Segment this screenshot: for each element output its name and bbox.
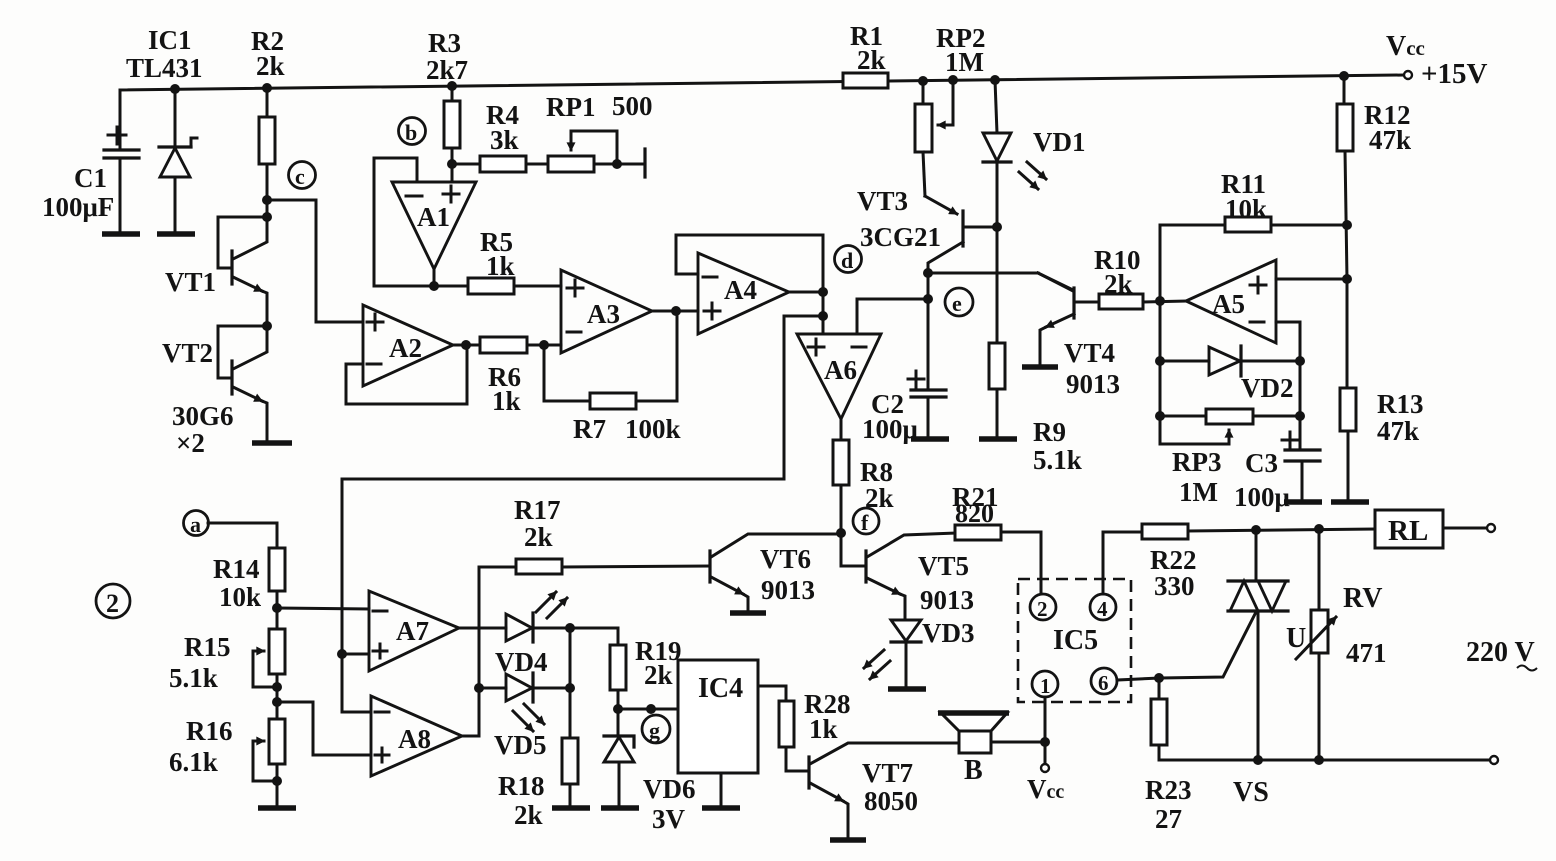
svg-text:2k: 2k: [857, 45, 886, 75]
svg-text:5.1k: 5.1k: [1033, 445, 1082, 475]
wire tap to A8 input: [277, 702, 371, 755]
terminal mains bottom: [1490, 756, 1498, 764]
ground under R16: [258, 805, 296, 811]
svg-text:5.1k: 5.1k: [169, 663, 218, 693]
junction VD4 cathode: [565, 623, 575, 633]
op-amp A3: [561, 270, 652, 353]
junction R3/R4/A1: [447, 159, 457, 169]
junction RV top: [1314, 524, 1324, 534]
svg-text:R16: R16: [186, 716, 233, 746]
svg-text:47k: 47k: [1369, 125, 1411, 155]
svg-text:a: a: [190, 512, 201, 537]
diode VD4: [506, 613, 570, 642]
junction VT1/VT2: [262, 321, 272, 331]
resistor R6: [480, 337, 561, 353]
svg-text:VD5: VD5: [494, 730, 547, 760]
svg-text:VT6: VT6: [760, 544, 811, 574]
resistor R1: [843, 73, 888, 88]
svg-text:3V: 3V: [652, 804, 686, 834]
resistor R10: [1074, 294, 1186, 309]
wire A5 noninverting input: [1276, 278, 1347, 281]
capacitor C1: [104, 90, 139, 232]
wire IC4 output: [758, 686, 786, 701]
transistor VT2: [218, 326, 267, 441]
junction VT3 base / VD1: [992, 222, 1002, 232]
junction R19/VD6: [613, 704, 623, 714]
wire A3 output: [652, 310, 698, 313]
wire bottom mains rail: [1159, 759, 1489, 762]
resistor R9: [989, 343, 1005, 437]
svg-text:b: b: [405, 120, 417, 145]
junction R15/R16 tap: [272, 697, 282, 707]
svg-text:4: 4: [1097, 597, 1108, 621]
wire R14 node to A7 input: [277, 608, 369, 609]
resistor R13: [1340, 279, 1356, 500]
wire R19 node to IC4: [618, 708, 678, 711]
svg-text:A2: A2: [389, 333, 422, 363]
terminal bar after RP1: [643, 149, 646, 177]
svg-text:e: e: [952, 291, 962, 316]
op-amp A6: [797, 334, 881, 419]
resistor R5: [434, 278, 561, 294]
junction rail/IC1: [170, 84, 180, 94]
junction speaker/Vcc pin1: [1040, 737, 1050, 747]
svg-text:500: 500: [612, 91, 653, 121]
wire output bus R17/VD5: [478, 567, 481, 736]
svg-text:VT1: VT1: [165, 267, 216, 297]
pin 4 IC5: [1090, 594, 1116, 621]
svg-text:R3: R3: [428, 28, 461, 58]
ground under C1: [102, 231, 140, 237]
svg-text:d: d: [841, 248, 853, 273]
ground under R9: [979, 436, 1017, 442]
svg-text:A4: A4: [724, 275, 757, 305]
arrows VD4 emission: [536, 592, 567, 618]
wire A1 output: [433, 269, 436, 287]
wire pin4 to R22: [1103, 532, 1142, 594]
junction VD2 cathode: [1295, 356, 1305, 366]
svg-text:100μ: 100μ: [1234, 482, 1290, 512]
svg-text:1k: 1k: [809, 714, 838, 744]
load RL box: [1375, 510, 1443, 548]
junction A6 input tie: [818, 311, 828, 321]
junction R14/R15: [272, 603, 282, 613]
svg-text:VD3: VD3: [922, 618, 975, 648]
svg-text:2k: 2k: [1104, 269, 1133, 299]
node e: [945, 288, 973, 316]
resistor R17: [479, 559, 710, 574]
svg-text:9013: 9013: [920, 585, 974, 615]
node g: [642, 715, 670, 743]
triac VS: [1228, 530, 1288, 760]
op-amp A1: [392, 182, 476, 269]
junction gate/R23: [1154, 673, 1164, 683]
svg-text:9013: 9013: [761, 575, 815, 605]
resistor R11: [1160, 217, 1347, 301]
svg-text:B: B: [964, 755, 983, 786]
svg-text:TL431: TL431: [126, 53, 203, 83]
junction rail/RP2: [918, 76, 928, 86]
junction R2 bottom: [262, 195, 272, 205]
terminal mains top: [1487, 524, 1495, 532]
svg-text:IC4: IC4: [698, 673, 743, 704]
junction RP3 left: [1155, 411, 1165, 421]
svg-text:6.1k: 6.1k: [169, 747, 218, 777]
node f: [853, 508, 879, 535]
svg-text:6: 6: [1098, 671, 1109, 695]
junction R15 bottom: [272, 682, 282, 692]
ground under C3: [1284, 499, 1322, 505]
resistor R19: [610, 645, 626, 709]
wire A1 noninverting input from R3: [451, 164, 454, 182]
svg-text:VT5: VT5: [918, 551, 969, 581]
svg-text:VT4: VT4: [1064, 338, 1115, 368]
IC4 box: [678, 660, 758, 773]
junction R16 bottom: [272, 776, 282, 786]
junction f: [836, 528, 846, 538]
op-amp A2: [363, 305, 453, 386]
wire A7 output to VD4: [459, 627, 506, 630]
resistor R23: [1151, 678, 1167, 760]
wire f to VT5 base: [841, 533, 866, 566]
varistor RV: [1296, 529, 1336, 760]
svg-text:1k: 1k: [486, 251, 515, 281]
junction rail/R12: [1339, 71, 1349, 81]
svg-text:100μ: 100μ: [862, 414, 918, 444]
svg-text:10k: 10k: [1225, 194, 1267, 224]
resistor R28: [779, 701, 809, 771]
wire A5 left bus: [1159, 301, 1162, 444]
junction RP3/C3: [1295, 411, 1305, 421]
svg-text:R17: R17: [514, 495, 561, 525]
svg-text:R13: R13: [1377, 389, 1424, 419]
junction A4 output: [818, 287, 828, 297]
svg-text:10k: 10k: [219, 582, 261, 612]
resistor R3: [444, 86, 460, 164]
junction rail/RP2 wiper: [948, 75, 958, 85]
svg-text:IC1: IC1: [148, 25, 192, 55]
svg-text:VT2: VT2: [162, 338, 213, 368]
svg-text:30G6: 30G6: [172, 401, 234, 431]
capacitor C2: [908, 371, 946, 437]
transistor VT6: [710, 534, 841, 611]
junction g node: [646, 704, 656, 714]
junction VD5 cathode: [565, 683, 575, 693]
junction RV bottom: [1314, 755, 1324, 765]
svg-text:C1: C1: [74, 163, 107, 193]
ground under C2: [911, 436, 949, 442]
potentiometer R15: [253, 629, 285, 702]
svg-text:c: c: [295, 164, 305, 189]
ground under VD6: [601, 805, 639, 811]
potentiometer RP3: [1160, 409, 1300, 444]
junction VT3 collector: [923, 268, 933, 278]
wire triac gate to pin6: [1117, 612, 1256, 680]
arrows VD5 emission: [513, 704, 544, 731]
node b: [399, 118, 426, 146]
diode VD2: [1160, 346, 1300, 376]
junction bus/VD5: [474, 683, 484, 693]
diode VD5: [479, 673, 570, 702]
ground under R18: [552, 805, 590, 811]
svg-text:IC5: IC5: [1053, 625, 1098, 656]
junction triac top: [1251, 525, 1261, 535]
label 220V: [1466, 637, 1537, 671]
svg-text:2: 2: [1037, 597, 1048, 621]
svg-text:330: 330: [1154, 571, 1195, 601]
svg-text:C3: C3: [1245, 448, 1278, 478]
svg-text:A6: A6: [824, 355, 857, 385]
svg-text:2k: 2k: [644, 660, 673, 690]
junction R6/R7/A3: [539, 340, 549, 350]
potentiometer RP1: [548, 131, 645, 172]
svg-text:3k: 3k: [490, 125, 519, 155]
wire A8 output to bus: [462, 735, 479, 738]
arrows VD3 emission: [864, 650, 890, 679]
transistor VT1: [218, 217, 267, 326]
ground under VT2: [252, 440, 292, 446]
terminal Vcc +15V: [1404, 71, 1412, 79]
transistor VT5: [866, 533, 955, 620]
IC1 TL431 shunt regulator: [159, 89, 197, 232]
svg-text:VS: VS: [1233, 777, 1269, 808]
ground under VD3: [888, 686, 926, 692]
junction feedback to A7: [337, 649, 347, 659]
svg-text:g: g: [649, 718, 660, 743]
transistor VT7: [809, 743, 959, 838]
svg-text:VT7: VT7: [862, 758, 913, 788]
svg-text:RL: RL: [1388, 515, 1428, 547]
pin 6 IC5: [1091, 668, 1117, 695]
svg-text:VD1: VD1: [1033, 127, 1086, 157]
svg-text:27: 27: [1155, 804, 1182, 834]
svg-text:2k: 2k: [514, 800, 543, 830]
junction RP1 wiper/output: [612, 159, 622, 169]
wire RL to terminal: [1443, 527, 1486, 530]
svg-text:A1: A1: [417, 202, 450, 232]
svg-text:RP3: RP3: [1172, 447, 1222, 477]
IC5 dashed box: [1018, 579, 1131, 702]
wire A1 feedback loop: [374, 158, 434, 286]
junction R11/R12: [1342, 220, 1352, 230]
capacitor C3: [1282, 416, 1320, 500]
junction A2 output: [461, 340, 471, 350]
svg-text:A3: A3: [587, 299, 620, 329]
resistor R12: [1337, 76, 1353, 279]
wire +15V top supply rail: [120, 75, 1403, 90]
junction A5 input / R12 divider: [1342, 274, 1352, 284]
svg-text:1k: 1k: [492, 386, 521, 416]
svg-text:47k: 47k: [1377, 416, 1419, 446]
symbol circled 2: [96, 584, 130, 618]
ground under IC1: [157, 231, 195, 237]
resistor R2: [259, 88, 275, 217]
zener VD6: [604, 709, 634, 806]
junction e: [923, 294, 933, 304]
svg-text:VD6: VD6: [643, 774, 696, 804]
op-amp A4: [698, 253, 789, 334]
svg-text:820: 820: [955, 499, 994, 528]
svg-text:+15V: +15V: [1421, 58, 1488, 90]
pin 1 IC5: [1032, 671, 1058, 698]
wire e node collector bus: [857, 273, 1073, 390]
wire VD4/VD5 node down: [569, 628, 572, 738]
wire A2 output: [453, 344, 480, 347]
svg-text:3CG21: 3CG21: [860, 222, 941, 252]
svg-text:R15: R15: [184, 632, 231, 662]
svg-text:VD2: VD2: [1241, 373, 1294, 403]
resistor R21: [955, 525, 1041, 594]
wire IC4 ground pin: [720, 773, 723, 806]
svg-text:8050: 8050: [864, 786, 918, 816]
svg-text:A5: A5: [1212, 289, 1245, 319]
diode VD1: [983, 80, 1011, 343]
junction rail/R3: [447, 81, 457, 91]
svg-text:VT3: VT3: [857, 186, 908, 216]
wire A4 feedback loop: [676, 235, 823, 292]
junction triac bottom: [1253, 755, 1263, 765]
wire node c to A2 input: [267, 200, 363, 322]
wire feedback to A7 A8 comparators: [342, 316, 823, 712]
resistor R18: [562, 738, 578, 806]
resistor R8: [833, 440, 849, 533]
op-amp A5: [1186, 260, 1276, 343]
ground under VT7: [830, 837, 866, 843]
svg-text:9013: 9013: [1066, 369, 1120, 399]
svg-text:U: U: [1286, 623, 1306, 654]
svg-text:A8: A8: [398, 724, 431, 754]
junction A1 output: [429, 281, 439, 291]
pin 2 IC5: [1030, 594, 1056, 621]
potentiometer RP2: [915, 80, 953, 152]
op-amp A8: [371, 696, 462, 776]
junction R10/A5/R11: [1155, 296, 1165, 306]
svg-text:×2: ×2: [176, 428, 205, 458]
svg-text:R9: R9: [1033, 417, 1066, 447]
wire branch to A7 input: [342, 653, 369, 656]
svg-text:VD4: VD4: [495, 647, 548, 677]
arrows VD1 emission: [1019, 162, 1046, 189]
wire A2 feedback loop: [346, 345, 467, 404]
potentiometer R16: [253, 702, 285, 806]
svg-text:f: f: [861, 510, 869, 535]
svg-text:1M: 1M: [945, 47, 984, 77]
svg-text:100μF: 100μF: [42, 192, 114, 222]
svg-text:220 V: 220 V: [1466, 637, 1535, 668]
ground under IC4: [702, 805, 740, 811]
wire A4 output down to A6 input: [822, 292, 825, 334]
node d: [835, 246, 862, 274]
junction rail/VD1: [990, 75, 1000, 85]
svg-text:2: 2: [106, 589, 119, 618]
resistor R7 feedback: [544, 311, 677, 409]
svg-text:R14: R14: [213, 554, 260, 584]
svg-text:A7: A7: [396, 616, 429, 646]
wire A5 inverting input: [1276, 322, 1300, 416]
svg-text:R7: R7: [573, 414, 606, 444]
junction VT1 base tie: [262, 212, 272, 222]
junction A3 output: [671, 306, 681, 316]
svg-text:R18: R18: [498, 771, 545, 801]
speaker B: [938, 713, 1045, 753]
wire VD4 node to R19: [570, 628, 618, 645]
ground under VT6: [730, 610, 766, 616]
node a: [184, 511, 209, 538]
node c: [289, 162, 316, 190]
svg-text:Vcc: Vcc: [1386, 31, 1425, 62]
terminal Vcc lower: [1041, 764, 1049, 772]
junction rail/R2: [262, 83, 272, 93]
svg-text:1: 1: [1040, 674, 1051, 698]
wire IC5 pin1 to Vcc terminal: [1044, 697, 1047, 763]
diode VD3: [891, 620, 921, 687]
svg-text:2k: 2k: [256, 51, 285, 81]
transistor VT3: [923, 152, 997, 273]
svg-text:1M: 1M: [1179, 477, 1218, 507]
transistor VT4: [1038, 273, 1074, 365]
resistor R22: [1142, 524, 1375, 539]
svg-text:RP1: RP1: [546, 92, 596, 122]
ground under VT4: [1022, 364, 1058, 370]
resistor R14: [208, 523, 285, 629]
op-amp A7: [369, 591, 459, 671]
wire A6 output: [840, 419, 843, 440]
svg-text:RV: RV: [1343, 583, 1382, 614]
junction VD2 anode: [1155, 356, 1165, 366]
resistor R4: [452, 156, 548, 172]
ground under R13: [1331, 499, 1369, 505]
svg-text:100k: 100k: [625, 414, 681, 444]
svg-text:2k7: 2k7: [426, 55, 468, 85]
svg-text:2k: 2k: [524, 522, 553, 552]
wire A4 output: [789, 291, 823, 294]
svg-text:471: 471: [1346, 638, 1387, 668]
svg-text:R23: R23: [1145, 775, 1192, 805]
